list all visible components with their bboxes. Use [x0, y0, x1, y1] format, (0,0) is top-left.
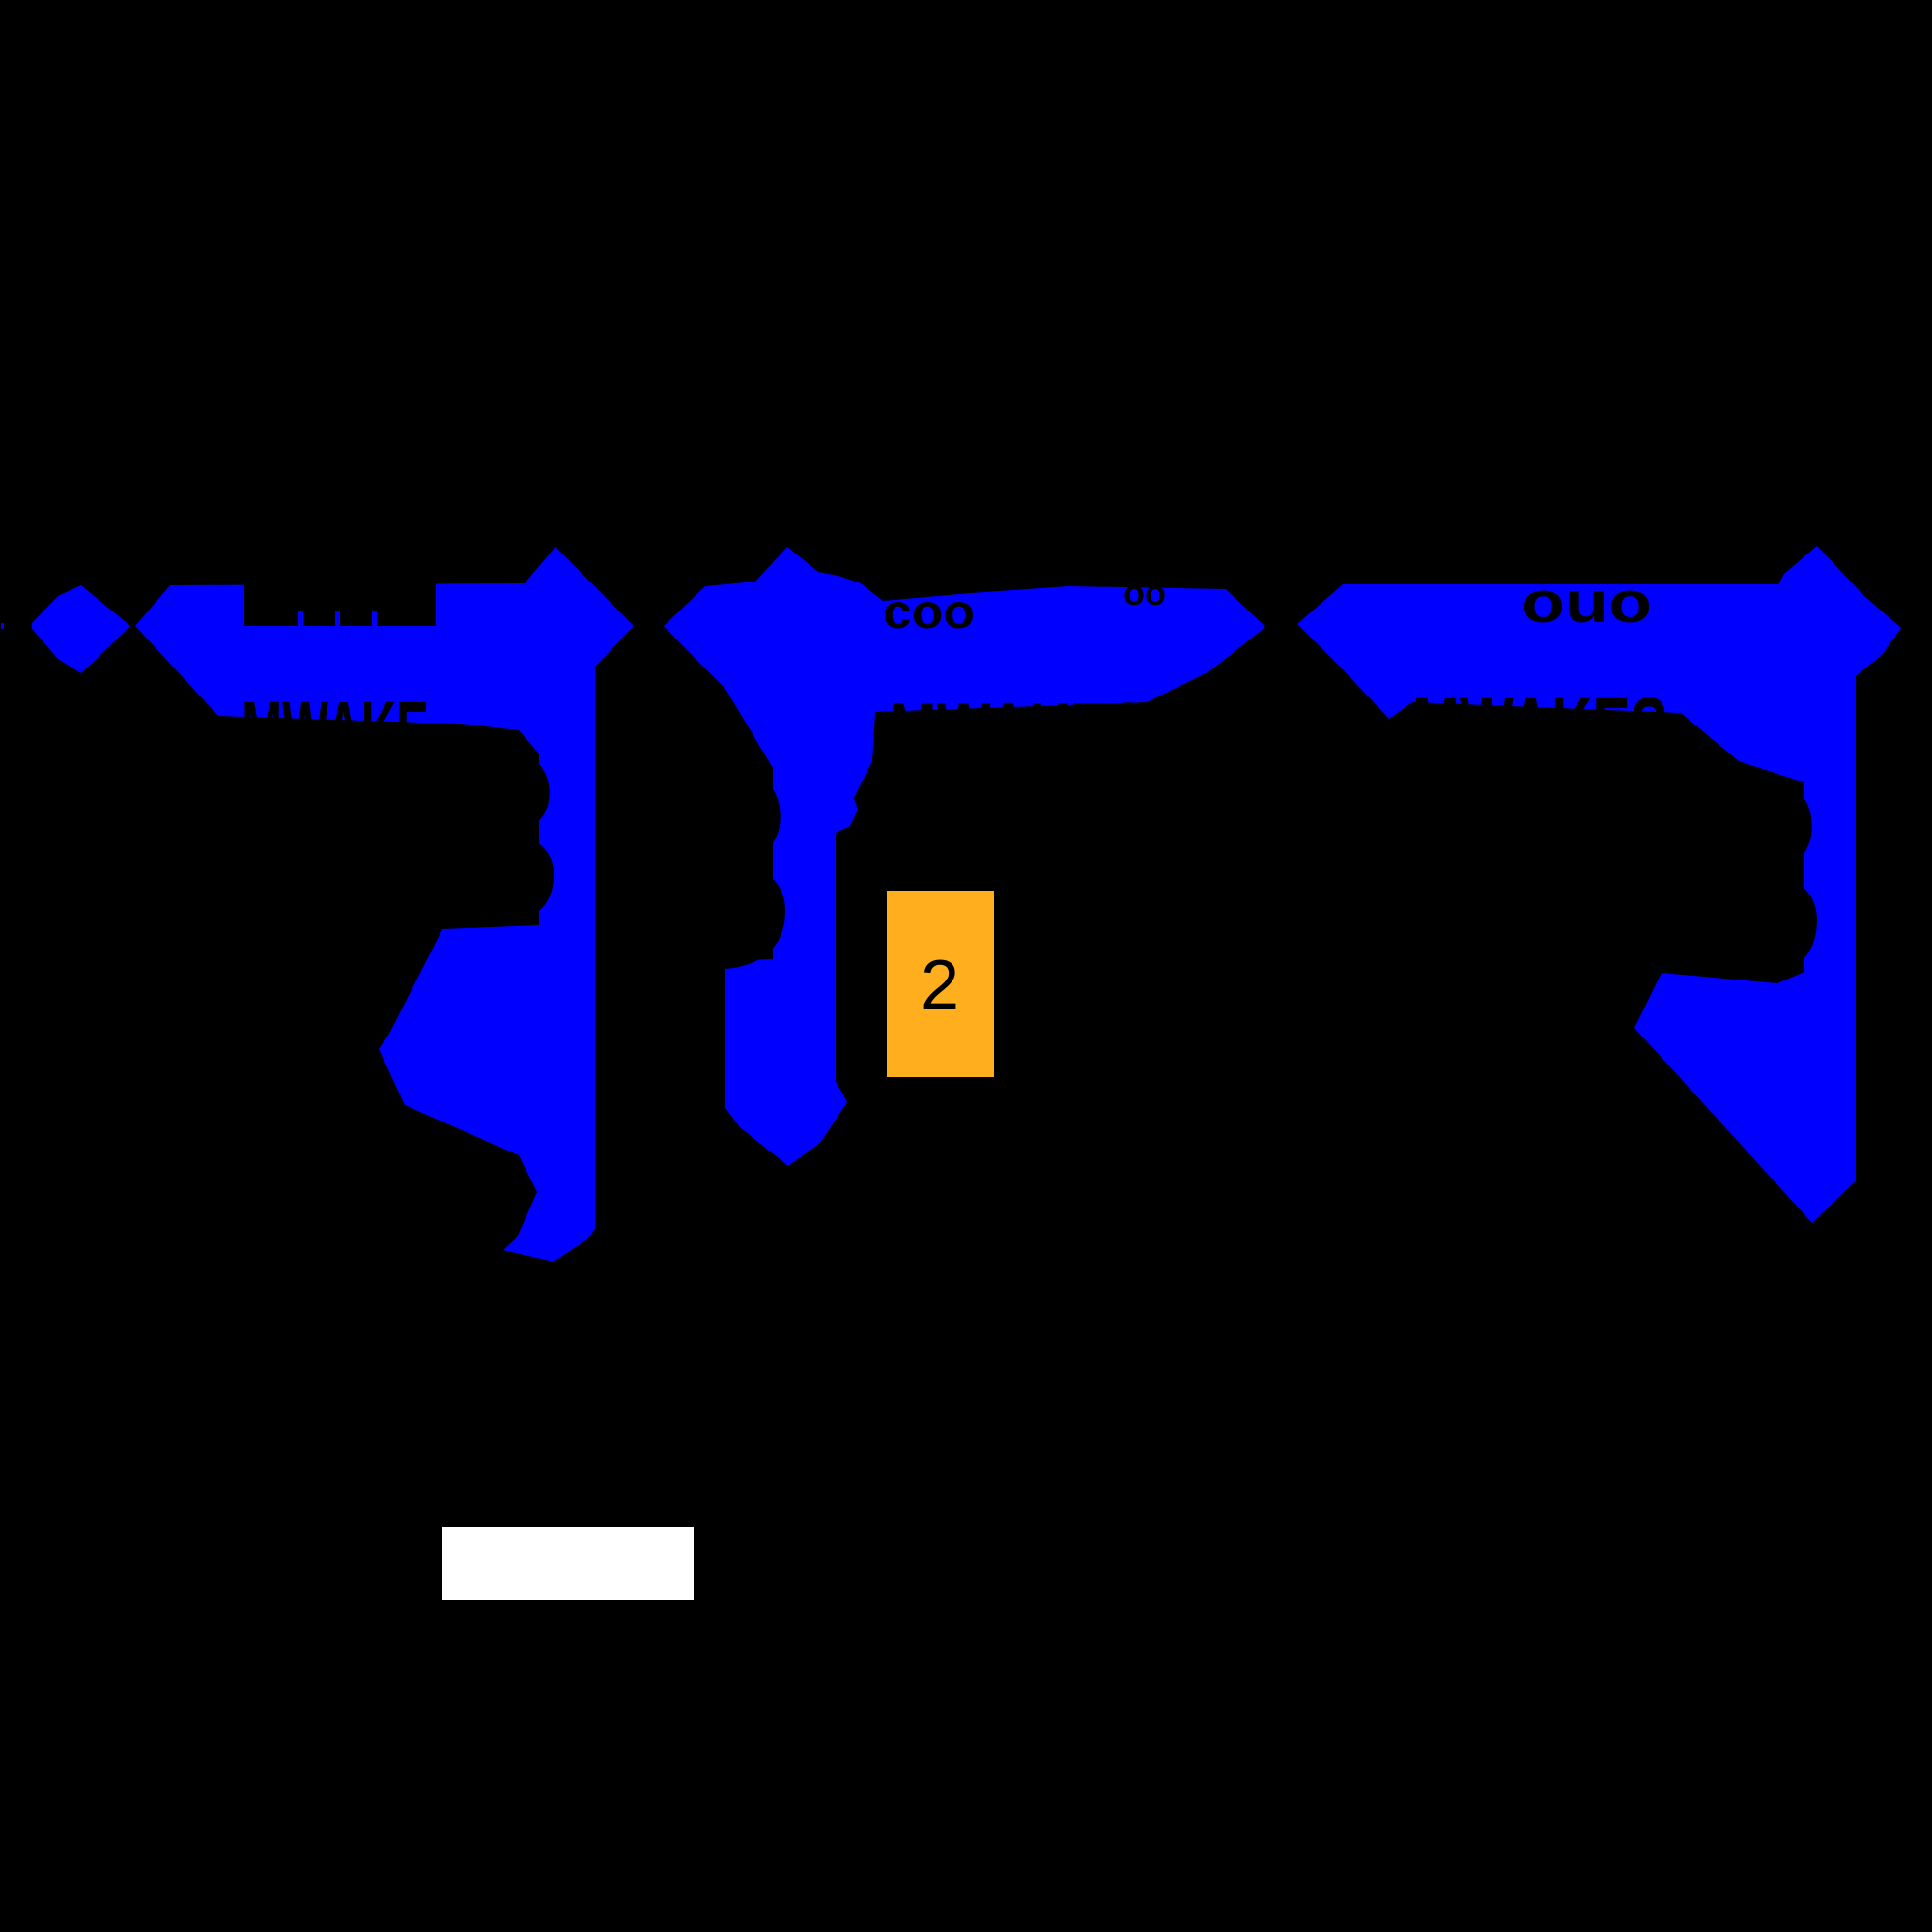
svg-text:3: 3 [635, 703, 796, 1028]
svg-text:3: 3 [1666, 713, 1828, 1037]
label text carve G1 row1 [244, 572, 436, 626]
wire G1 main arrow [135, 547, 634, 1262]
svg-text:ouo: ouo [1521, 570, 1652, 635]
wire G3 main arrow [1297, 546, 1901, 1223]
svg-text:MWAKES: MWAKES [889, 686, 1147, 782]
arrowhead diamond G1 head [32, 585, 130, 673]
legend white box [442, 1527, 694, 1600]
node dot left edge [1, 623, 4, 629]
svg-text:coo: coo [883, 584, 975, 639]
wire G2 main arrow [664, 547, 1265, 1166]
node box 2 (orange) [887, 891, 994, 1077]
svg-text:3: 3 [423, 696, 563, 977]
svg-text:MWAKES: MWAKES [1412, 680, 1668, 779]
svg-text:MWAKE: MWAKE [241, 683, 429, 782]
node bump G2 [836, 784, 858, 833]
svg-text:2: 2 [921, 947, 959, 1024]
svg-text:oo: oo [1123, 573, 1166, 612]
